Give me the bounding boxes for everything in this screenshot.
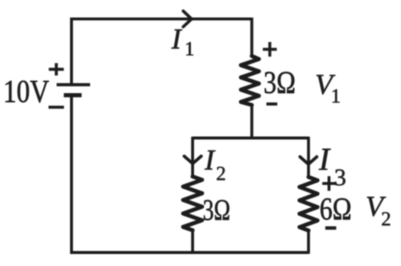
label 3ohm (R1 value) xyxy=(265,72,295,94)
resistor 3ohm R1 (V1 branch) xyxy=(241,56,259,105)
wire: bottom return to battery - xyxy=(72,95,309,252)
battery 10V source plates xyxy=(57,85,91,96)
wire: left parallel branch upper segment xyxy=(191,137,194,177)
wire: R1 branch vertical (top wire corner down to resistor) xyxy=(250,18,253,57)
wire: right parallel branch lower segment xyxy=(307,230,310,254)
wire: left parallel branch lower segment xyxy=(191,230,194,254)
label I3 xyxy=(319,149,331,170)
label - (V1 polarity) xyxy=(266,102,277,105)
resistor 6ohm R3 (V2 branch) xyxy=(300,177,318,231)
current arrow I1 on top wire xyxy=(183,11,191,27)
label I1 xyxy=(171,30,182,49)
current arrow I2 on left parallel branch xyxy=(184,156,201,163)
wire: R1 bottom to middle node xyxy=(250,105,253,140)
wire: right parallel branch upper segment xyxy=(307,137,310,178)
label 6ohm (R3 value) xyxy=(321,198,351,220)
label I2 xyxy=(205,151,216,170)
wire: top segment from battery + to R1 top xyxy=(72,19,252,85)
wire: middle horizontal node between parallel branches xyxy=(193,137,309,140)
label + (V2 polarity) xyxy=(322,176,336,191)
label 3ohm (R2 value) xyxy=(204,200,229,220)
battery - polarity sign xyxy=(49,106,65,109)
label - (V2 polarity) xyxy=(325,226,336,229)
current arrow I3 on right parallel branch xyxy=(300,157,317,164)
resistor 3ohm R2 (I2 branch) xyxy=(183,177,202,231)
label 10V xyxy=(6,81,49,103)
battery + polarity sign xyxy=(49,63,64,75)
label + (V1 polarity) xyxy=(263,42,277,57)
label V1 xyxy=(316,75,335,94)
label V2 xyxy=(367,197,386,216)
